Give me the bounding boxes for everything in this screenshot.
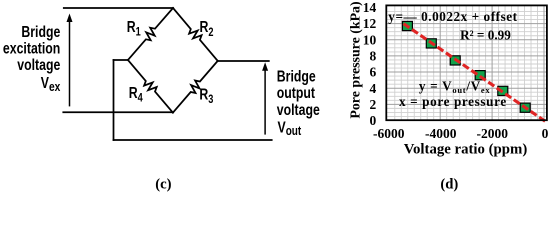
svg-text:output: output — [277, 85, 315, 103]
svg-text:8: 8 — [370, 49, 377, 64]
svg-text:R2: R2 — [200, 19, 214, 39]
resistor R4 — [128, 60, 173, 113]
svg-text:R4: R4 — [129, 85, 143, 105]
svg-text:6: 6 — [370, 65, 377, 80]
label: Bridge output voltage Vout — [277, 68, 320, 138]
svg-text:Vex: Vex — [41, 75, 61, 95]
resistor R1 — [128, 8, 173, 60]
svg-text:voltage: voltage — [277, 102, 320, 120]
svg-text:excitation: excitation — [3, 40, 60, 58]
svg-text:(d): (d) — [440, 176, 458, 192]
wire output right (right node to Vout plus) — [218, 60, 269, 62]
chart plot frame — [386, 5, 547, 120]
svg-text:-6000: -6000 — [373, 126, 405, 141]
wire top rail (Vex +) — [64, 7, 173, 9]
y axis tick labels — [363, 0, 377, 128]
svg-text:x = pore pressure: x = pore pressure — [399, 94, 507, 109]
svg-text:2: 2 — [370, 97, 377, 112]
data series: green square markers — [402, 21, 530, 112]
label: Bridge excitation voltage Vex — [3, 24, 61, 95]
chart minor gridlines — [386, 5, 547, 120]
wire bottom rail (Vout minus) — [114, 139, 272, 141]
Vout annotation arrow — [262, 62, 268, 134]
svg-text:R² = 0.99: R² = 0.99 — [460, 28, 511, 43]
svg-text:Voltage ratio (ppm): Voltage ratio (ppm) — [404, 141, 528, 157]
svg-text:10: 10 — [363, 32, 377, 47]
Vex annotation arrow — [67, 14, 73, 107]
resistor R3 — [173, 61, 218, 113]
wire left stub from left node — [114, 59, 128, 61]
svg-text:-2000: -2000 — [477, 126, 509, 141]
trendline (red dashed) — [404, 24, 547, 123]
chart major gridlines — [386, 5, 547, 120]
svg-text:y=— 0.0022x + offset: y=— 0.0022x + offset — [388, 9, 517, 24]
svg-text:Pore pressure (kPa): Pore pressure (kPa) — [349, 1, 364, 119]
svg-text:4: 4 — [370, 81, 377, 96]
svg-text:12: 12 — [363, 16, 377, 31]
wire left vertical drop — [113, 60, 115, 140]
svg-text:R3: R3 — [199, 86, 213, 106]
svg-text:Vout: Vout — [278, 119, 302, 139]
resistor R2 — [173, 8, 218, 61]
svg-text:Bridge: Bridge — [277, 68, 316, 86]
svg-text:0: 0 — [542, 126, 549, 141]
svg-text:(c): (c) — [155, 176, 171, 192]
wire mid rail (bottom node to Vex minus) — [63, 111, 173, 113]
x axis tick labels — [373, 126, 549, 141]
svg-text:R1: R1 — [127, 19, 141, 39]
svg-text:y = Vout/Vex: y = Vout/Vex — [419, 79, 490, 95]
svg-text:14: 14 — [363, 0, 377, 15]
svg-text:-4000: -4000 — [425, 126, 457, 141]
svg-text:voltage: voltage — [17, 57, 60, 75]
